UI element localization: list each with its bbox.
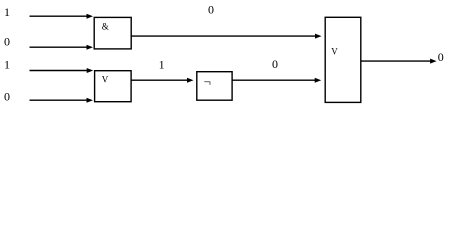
svg-text:1: 1 <box>4 58 10 72</box>
input label 1 (value 1) <box>4 5 10 19</box>
AND gate U1 label & <box>102 22 109 32</box>
node label 0 on NOT output <box>272 57 278 71</box>
svg-text:0: 0 <box>208 3 214 17</box>
svg-text:0: 0 <box>4 90 10 104</box>
wire AND output to OR gate U4 <box>131 34 321 39</box>
svg-text:V: V <box>102 75 109 85</box>
svg-text:0: 0 <box>4 34 10 48</box>
svg-text:1: 1 <box>4 5 10 19</box>
wire input 4 to OR gate <box>30 98 94 103</box>
output wire from OR gate U4 <box>361 59 437 64</box>
wire input 1 to AND gate <box>30 14 94 19</box>
AND gate U1 box <box>94 17 131 49</box>
wire OR U2 output to NOT gate <box>131 78 193 83</box>
OR gate U4 box <box>325 17 361 102</box>
input label 4 (value 0) <box>4 90 10 104</box>
svg-text:1: 1 <box>159 58 165 72</box>
input label 3 (value 1) <box>4 58 10 72</box>
wire NOT output to OR gate U4 <box>232 78 321 83</box>
OR gate U2 box <box>95 71 132 102</box>
node label 0 on AND output <box>208 3 214 17</box>
svg-text:V: V <box>331 46 338 56</box>
svg-text:0: 0 <box>272 57 278 71</box>
wire input 2 to AND gate <box>30 45 94 50</box>
NOT gate U3 box <box>197 72 232 101</box>
wire input 3 to OR gate <box>30 68 94 73</box>
svg-text:0: 0 <box>438 50 444 64</box>
OR gate U4 label V <box>331 46 338 56</box>
node label 1 on OR U2 output <box>159 58 165 72</box>
NOT gate U3 label ¬ <box>204 74 211 89</box>
svg-text:&: & <box>102 22 109 32</box>
output label 0 <box>438 50 444 64</box>
svg-text:¬: ¬ <box>204 74 211 89</box>
OR gate U2 label V <box>102 75 109 85</box>
input label 2 (value 0) <box>4 34 10 48</box>
